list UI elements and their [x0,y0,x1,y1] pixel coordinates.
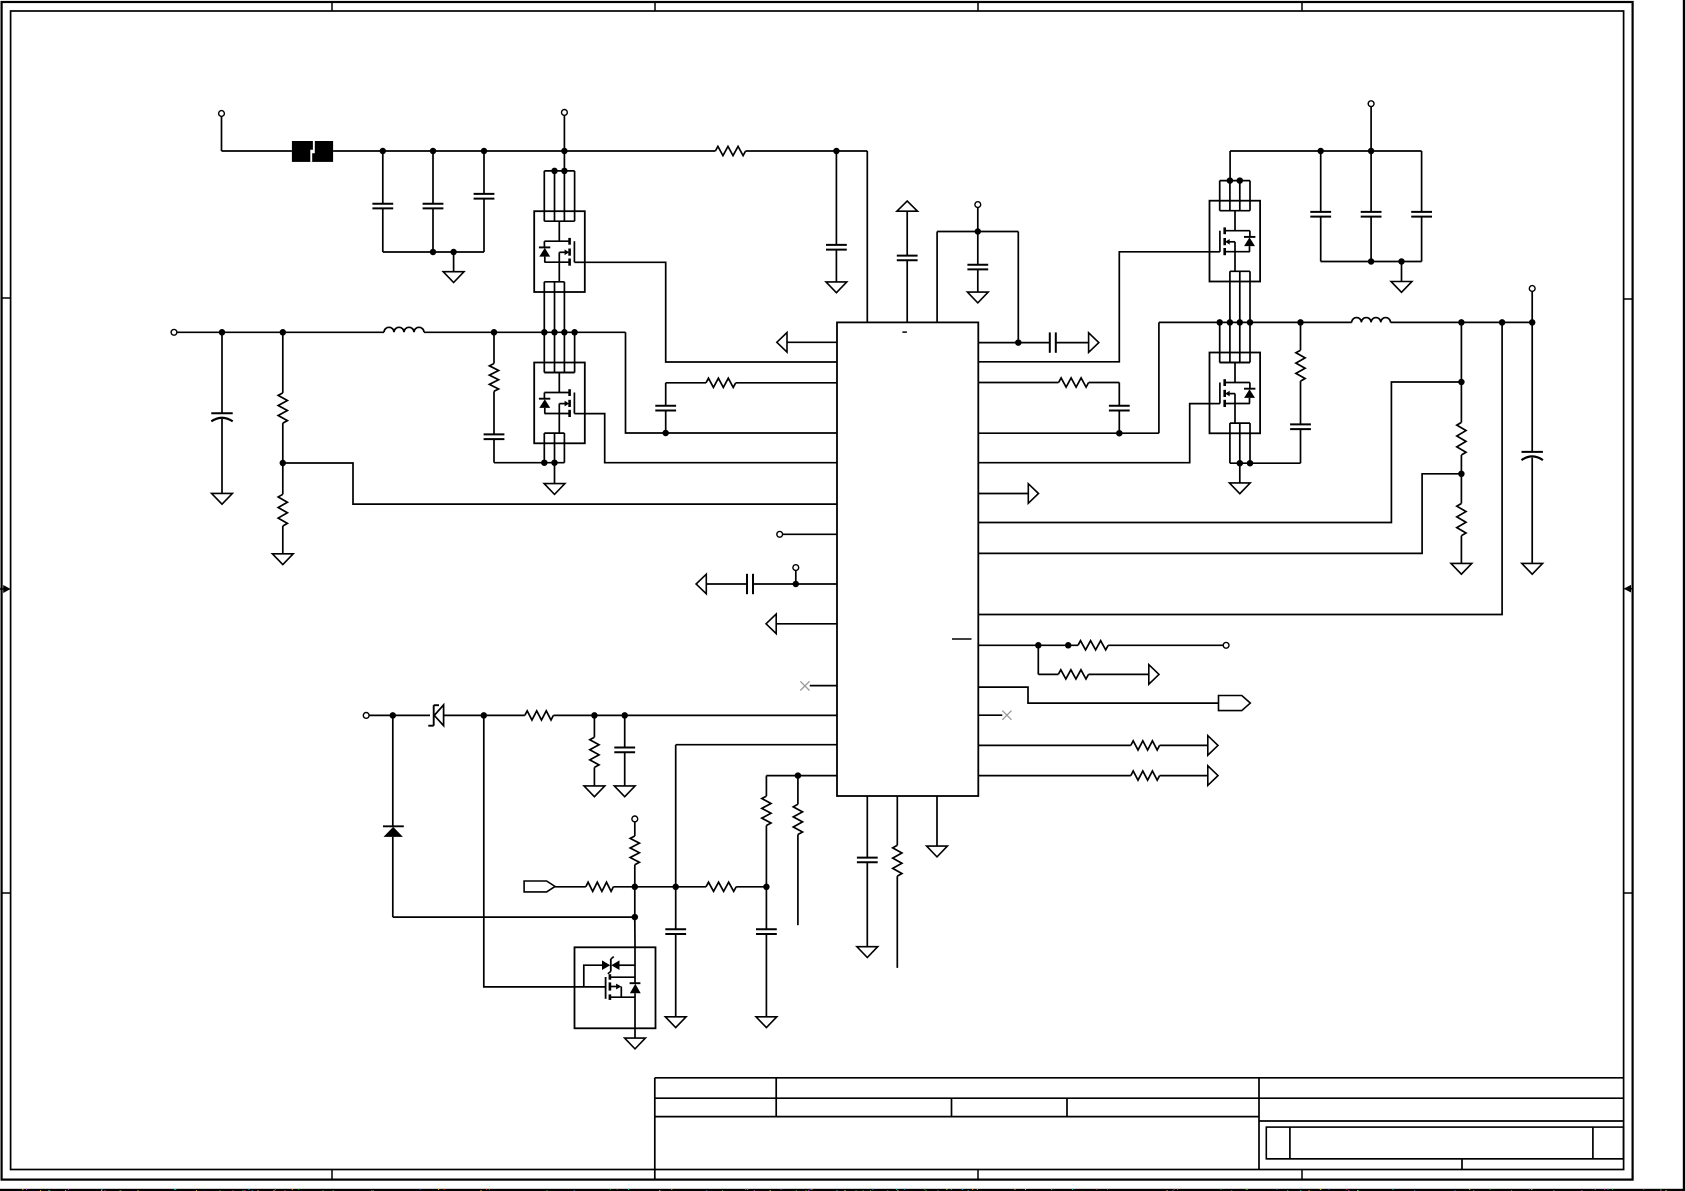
capacitor C21 polarized out [1531,322,1533,452]
transistor Q4 (lo-side FET right) [1210,353,1261,434]
ground G9 [625,1038,646,1049]
wire PHASE1 sense [626,332,838,433]
node ref junctions [1035,642,1042,649]
capacitor C11 vin bypass [835,151,837,245]
terminal T4 ss [793,565,799,571]
node flag1 junctions [632,884,639,891]
tvs Z2 bowtie [602,960,610,970]
capacitor C10 [765,887,767,930]
resistor R16 [1058,670,1088,679]
inductor L1 [384,327,424,332]
node VIN rail junctions [380,148,387,155]
wire Q4 drain pins [1219,322,1221,362]
arrow A3 [766,614,776,634]
wire Q3 source pins [1229,282,1231,323]
capacitor C18 [1370,151,1372,212]
capacitor C19 [1421,151,1423,212]
wire ref net [978,644,1078,646]
wire gnd pin [936,796,938,846]
resistor R17 [1131,741,1160,750]
zener Z1 [433,705,435,726]
ground G4 [272,554,293,565]
capacitor C9 [675,887,677,930]
terminal T2 VOUT1 [171,329,177,335]
border bottom ticks [331,1170,333,1180]
node comp2 junction [1015,339,1022,346]
wire input to fuse [222,150,292,152]
wire phase2 rail [1159,321,1352,323]
wire D1 to Q5 [393,916,635,918]
node PGND1 junctions [541,459,548,466]
resistor R7 [593,715,595,737]
wire U1 nc stub [810,685,837,687]
resistor R1 on VIN rail [715,146,745,155]
ground G5 [584,786,605,797]
wire BOOT1 [666,382,706,384]
wire PGND1 rail [494,462,564,464]
ground G14 [1401,262,1403,282]
wire Q2 drain pins [543,332,545,372]
transistor Q2 (lo-side FET left) [534,363,585,444]
terminal T6 BT [632,816,638,822]
capacitor C6 boot1 [665,383,667,406]
wire tvs leads [620,964,636,966]
node Q1 drain pins [551,168,558,175]
wire U1 comp pin [787,341,837,343]
border right center arrow [1627,588,1633,590]
wire U1 sync pin [776,623,837,625]
terminal T1 input [219,111,225,117]
x-mark NC2 [1002,711,1011,720]
Q5 gate bar [605,977,607,999]
resistor R5 boot1 [706,378,736,387]
wire ilim vert [675,745,677,887]
wire EN2 net [937,231,1018,233]
node 12V junctions [390,712,397,719]
diode D1 [392,715,394,826]
ground G6 [614,786,635,797]
Q5 main vert bottom [634,993,636,1038]
node ofs junction [795,772,802,779]
terminal T7 EN2 [975,202,981,208]
wire C1-C3 ground rail [383,251,484,253]
node phase2 pins [1216,319,1223,326]
node VOUT1 junctions [219,329,226,336]
wire VIN rail [333,150,715,152]
ground G2 [554,463,556,484]
wire Q2 source pins [543,443,545,462]
flag FL2 [1219,696,1251,711]
wire Q4 source pins [1229,433,1231,463]
wire UGATE1 [585,262,837,362]
resistor R21 divider2 bottom [1460,474,1462,504]
title block revision box [1266,1127,1623,1159]
ground G15 [1239,463,1241,483]
capacitor C5 snubber1 [484,433,505,435]
capacitor C2 [432,151,434,204]
wire PHASE2 sense [978,432,1159,434]
wire VOUT1 rail [177,331,384,333]
node boot1-phase junction [662,430,669,437]
wire R8 node down [634,887,636,917]
Q5 drain/source leads [610,976,635,978]
title block outline [655,1077,1624,1079]
node VIN2 junctions [1317,148,1324,155]
resistor R12 dangling [797,776,799,805]
wire U1 ss pin [706,583,747,585]
wire ref branch [1037,645,1039,674]
resistor R10 [706,882,736,891]
capacitor C7 series ss [746,574,748,594]
wire drive4 net [978,775,1131,777]
resistor R11 [762,796,771,825]
resistor R18 [1131,771,1160,780]
resistor R9 [586,882,614,891]
IC U1 controller body [837,322,978,796]
wire drive3 net [978,744,1131,746]
capacitor C3 [483,151,485,194]
wire C17-C19 gnd rail [1321,261,1422,263]
ground G1 [453,252,455,272]
resistor R8 [630,836,639,865]
node phase1 pins [541,329,548,336]
Q5 channel bars [609,974,612,980]
capacitor C12 vcc [906,211,908,255]
ground G16 [1451,563,1472,574]
arrow A2 [696,574,706,594]
node ss junction [793,581,800,588]
resistor R19 snubber2 [1300,322,1302,350]
wire 12V rail [393,714,430,716]
capacitor C14 [866,796,868,858]
resistor R15 [1078,641,1108,650]
resistor R4 snubber1 [493,332,495,363]
terminal T3 EN [777,531,783,537]
wire LGATE2 [978,404,1209,463]
resistor R6 [525,711,554,720]
Q5 main vert top [634,947,636,983]
capacitor C17 [1320,151,1322,212]
ground G17 [1522,563,1543,574]
ground G3 [212,493,233,504]
border right ticks [1624,298,1633,300]
wire ofs vert [765,776,767,797]
ground G10 [826,282,847,293]
terminal T9 VIN2 [1368,101,1374,107]
capacitor C20 snubber2 [1290,423,1311,425]
arrow A5 [1028,484,1038,504]
resistor R14 boot2 [1059,378,1089,387]
node Q3 drain pins [1227,177,1234,184]
ground G13 [927,846,948,857]
wire comp2 pin [978,342,1050,344]
resistor R2 divider top [282,332,284,393]
U1 interior mark 1 [902,331,907,333]
arrow A7 [1208,736,1218,756]
page right edge line [1683,0,1685,1191]
wire Q5 gate drive [484,715,606,987]
node EN2 junction [975,228,982,235]
terminal T11 vin-b [562,110,568,116]
Q1 top pin box [544,170,574,172]
terminal T5 12V [363,713,369,719]
node FB1 tap [280,460,287,467]
capacitor C15 series [1049,332,1051,352]
ground G12 [857,947,878,958]
capacitor C13 en [977,232,979,265]
x-mark NC1 [800,681,809,690]
node boot2-phase junction [1116,430,1123,437]
resistor R20 divider2 top [1460,322,1462,382]
capacitor C1 [382,151,384,204]
terminal T8 ref [1223,642,1229,648]
diode D2 inline [630,982,641,984]
wire fb2 net [978,474,1461,554]
capacitor C16 boot2 [1118,383,1120,406]
resistor R13 rt [896,796,898,845]
ground G8 [756,1017,777,1028]
node ground rail junctions [430,249,437,256]
arrow A8 [1208,766,1218,786]
wire vout sense net [978,322,1502,614]
flag FL1 [524,881,555,892]
wire nc2 stub [978,714,1002,716]
Q3 top pin box [1220,180,1250,182]
wire vsen2 net [978,382,1461,523]
capacitor C8 [624,715,626,747]
arrow A4 [1089,333,1099,353]
border left center arrow [0,588,7,590]
Q5 body arrow [610,986,617,988]
wire LGATE1 [585,414,837,463]
ground G7 [665,1017,686,1028]
wire flag1 net [555,886,586,888]
page bottom edge line [0,1189,1685,1191]
wire Q3 drain feed [1229,151,1231,181]
wire Q1 source pins [543,292,545,332]
border left ticks [2,297,11,299]
wire UGATE2 [978,252,1209,362]
arrow A6 [1149,665,1159,685]
wire VIN pin [866,151,868,322]
capacitor C4 polarized [221,332,223,413]
border top ticks [331,2,333,11]
node phase2 rail junctions [1297,319,1304,326]
wire FB1 to U1 [283,463,837,504]
node divider2 taps [1458,379,1465,386]
arrow A1 [777,333,787,353]
transistor Q3 (hi-side FET right) [1210,201,1261,282]
wire BOOT2 [978,382,1058,384]
fuse F1 [292,141,333,162]
ground G11 [967,292,988,303]
U1 interior mark 2 [952,638,972,640]
terminal T10 VOUT2 [1529,286,1535,292]
node PGND2 junctions [1237,460,1244,467]
transistor Q5 block [575,947,656,1028]
wire Q1 drain feed [563,151,565,171]
wire pwm3 pin [978,493,1028,495]
wire pgood net [978,687,1218,703]
node gnd rail junctions [1368,258,1375,265]
resistor R3 divider bottom [282,463,284,494]
wire PGND2 rail [1230,462,1301,464]
wire VIN2 rail [1230,150,1422,152]
power arrow VCC [897,201,918,211]
inductor L2 [1352,318,1391,323]
